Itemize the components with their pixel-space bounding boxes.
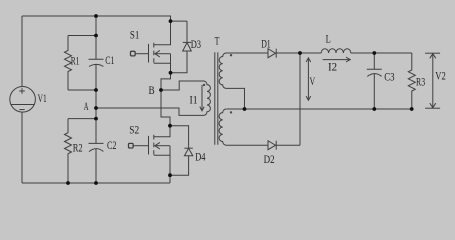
transformer core <box>215 52 218 145</box>
diode D3 <box>186 21 188 42</box>
wire node A to primary bottom <box>96 108 179 115</box>
junction C3 bottom <box>372 107 376 111</box>
svg-text:C3: C3 <box>384 69 394 83</box>
wire bottom rail <box>22 182 170 184</box>
svg-text:R2: R2 <box>73 140 83 154</box>
svg-text:D3: D3 <box>191 37 201 51</box>
wire L to output <box>351 52 412 54</box>
voltage arrow V2 <box>425 52 440 54</box>
junction R1C1 bottom bus <box>94 88 98 92</box>
transistor S1 drain lead <box>154 21 171 45</box>
wire V1 top lead <box>21 16 23 87</box>
wire C1 branch vertical <box>95 16 97 183</box>
transistor S1 body lead with arrow <box>155 53 171 55</box>
transistor S2 channel <box>153 135 155 155</box>
wire S2 source to bottom rail <box>169 155 171 183</box>
capacitor C1 <box>89 59 104 66</box>
svg-text:S2: S2 <box>129 123 139 137</box>
transistor S1 gate terminal <box>131 51 136 56</box>
wire node B to primary top and primary winding <box>161 81 210 115</box>
svg-text:A: A <box>84 99 89 113</box>
junction R3 bottom <box>410 107 414 111</box>
capacitor C3 <box>367 53 382 109</box>
wire D2 to riser <box>276 144 300 146</box>
resistor R1 <box>65 36 72 91</box>
lower secondary polarity dot <box>230 111 232 113</box>
resistor R2 <box>65 119 72 183</box>
svg-text:V: V <box>310 74 316 88</box>
svg-text:R3: R3 <box>416 75 425 89</box>
junction center tap <box>243 107 247 111</box>
junction C1 top rail <box>94 14 98 18</box>
svg-text:D4: D4 <box>195 149 205 163</box>
capacitor C2 <box>89 143 104 151</box>
upper secondary polarity dot <box>230 54 232 56</box>
svg-text:D1: D1 <box>261 36 271 50</box>
transistor S2 gate terminal <box>129 143 134 148</box>
junction C2 bottom rail <box>94 181 98 185</box>
wire R1C1 bottom bus <box>68 89 96 91</box>
junction D1 output node <box>298 51 302 55</box>
svg-text:B: B <box>149 83 155 97</box>
transistor S1 channel <box>153 43 155 63</box>
svg-text:R1: R1 <box>71 54 80 68</box>
wire D1 to L <box>276 52 321 54</box>
wire S2 drain from node B <box>161 90 170 126</box>
wire top rail <box>22 16 187 21</box>
wire V1 bottom lead <box>21 112 23 183</box>
junction S1 source D3 <box>169 71 173 75</box>
current I1 arrow <box>201 85 203 111</box>
diode D4 <box>170 126 189 149</box>
junction R2C2 top bus <box>94 117 98 121</box>
junction S2 source D4 <box>168 173 172 177</box>
transformer lower secondary winding <box>219 109 268 145</box>
svg-text:T: T <box>215 34 220 48</box>
wire R1C1 top bus <box>68 35 96 37</box>
current I2 arrow <box>323 59 351 61</box>
svg-text:V2: V2 <box>435 69 446 83</box>
svg-text:V1: V1 <box>38 91 47 105</box>
wire junction to node B staircase <box>161 73 171 90</box>
diode D1 <box>268 49 276 58</box>
voltage arrow V <box>307 58 309 101</box>
transistor S1 source lead <box>154 54 171 64</box>
voltage source V1 <box>10 87 36 113</box>
svg-text:C2: C2 <box>107 138 117 152</box>
transistor S2 source lead <box>154 146 170 156</box>
transistor S2 drain lead <box>154 126 170 137</box>
diode D2 <box>268 141 276 150</box>
junction R1C1 top bus <box>94 34 98 38</box>
junction node B <box>159 88 163 92</box>
resistor R3 <box>408 53 415 109</box>
junction S1 drain top rail <box>169 19 173 23</box>
wire D1 node down to D2 <box>299 53 301 145</box>
svg-text:L: L <box>326 31 331 45</box>
wire R2C2 top bus <box>68 118 96 120</box>
junction S2 drain D4 <box>168 124 172 128</box>
junction node A <box>94 106 98 110</box>
wire center tap rail <box>226 108 411 110</box>
inductor L <box>321 49 351 53</box>
svg-text:I2: I2 <box>328 60 337 74</box>
transformer upper secondary winding <box>219 53 268 109</box>
wire S1 source to junction <box>170 63 172 73</box>
svg-text:C1: C1 <box>105 53 114 67</box>
junction C3 top <box>372 51 376 55</box>
transistor S2 body lead with arrow <box>155 145 170 147</box>
svg-text:D2: D2 <box>264 152 275 166</box>
junction R2 bottom rail <box>66 181 70 185</box>
primary polarity dot <box>203 84 205 86</box>
svg-text:S1: S1 <box>130 28 140 42</box>
svg-text:I1: I1 <box>190 93 198 107</box>
